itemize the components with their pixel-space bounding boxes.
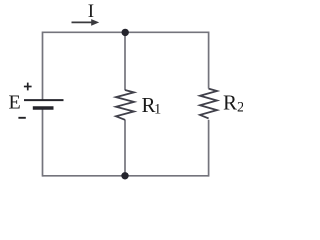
svg-text:R1: R1 xyxy=(142,93,162,117)
wire top-left segment xyxy=(43,31,126,33)
resistor R2 zigzag xyxy=(200,89,217,119)
resistor R1 zigzag xyxy=(116,90,134,120)
battery E negative plate xyxy=(33,106,54,109)
svg-text:I: I xyxy=(88,1,94,22)
wire left lower (battery negative lead) xyxy=(42,108,44,177)
wire right upper (R2 top lead) xyxy=(208,32,210,89)
wire bottom-right segment xyxy=(125,175,209,177)
wire middle upper (R1 top lead) xyxy=(124,32,126,90)
wire bottom-left segment xyxy=(43,175,126,177)
node junction top xyxy=(122,29,129,36)
wire top-right segment xyxy=(125,31,209,33)
battery plus sign xyxy=(24,83,32,91)
battery minus sign xyxy=(18,117,25,119)
current arrow xyxy=(72,19,100,26)
wire middle lower (R1 bottom lead) xyxy=(124,120,126,176)
svg-text:R2: R2 xyxy=(223,91,243,116)
wire left upper (battery positive lead) xyxy=(42,32,44,100)
wire right lower (R2 bottom lead) xyxy=(208,120,210,177)
svg-text:E: E xyxy=(9,92,21,114)
node junction bottom xyxy=(121,172,128,179)
battery E positive plate xyxy=(24,99,64,101)
